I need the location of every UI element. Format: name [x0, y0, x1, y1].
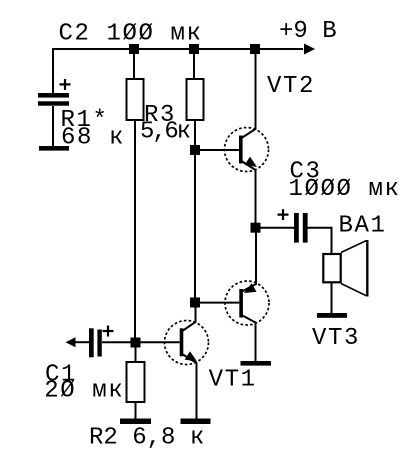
svg-text:2Ø мк: 2Ø мк	[44, 377, 124, 404]
svg-text:VT3: VT3	[312, 325, 360, 352]
svg-text:VT2: VT2	[267, 73, 315, 100]
svg-text:C2 1ØØ мк: C2 1ØØ мк	[59, 20, 203, 47]
svg-text:VT1: VT1	[209, 367, 257, 394]
svg-text:68 к: 68 к	[61, 124, 125, 151]
svg-text:BA1: BA1	[339, 212, 387, 239]
svg-text:5,6к: 5,6к	[140, 118, 191, 145]
svg-text:1ØØØ мк: 1ØØØ мк	[289, 176, 401, 203]
svg-text:+9 В: +9 В	[279, 18, 337, 45]
svg-text:R2 6,8 к: R2 6,8 к	[89, 425, 204, 452]
